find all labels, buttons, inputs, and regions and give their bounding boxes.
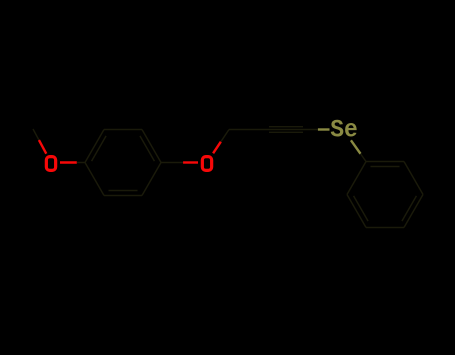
benzene ring 2 (phenyl) [347, 162, 366, 195]
atom label O1 [46, 157, 55, 171]
bond O2-CH2 [213, 142, 221, 154]
atom label O2 [202, 157, 211, 171]
bond Se-C2a (Se to phenyl) [351, 140, 361, 153]
bond CH2-C1 [229, 129, 267, 131]
ring 2 aromatic inner double lines [371, 166, 400, 168]
bond CH3-O1 (methoxy) [33, 129, 39, 140]
benzene ring 1 (para-substituted) [85, 130, 104, 163]
bond O1-C1a (O to ring1) [60, 161, 77, 163]
bond C2-Se [305, 129, 318, 131]
ring 1 aromatic inner double lines [92, 136, 107, 161]
triple bond C1#C2 [267, 129, 305, 131]
svg-text:Se: Se [330, 116, 358, 144]
bond C1d-O2 (ring1 to ether O) [161, 162, 183, 164]
atom label Se [330, 116, 358, 144]
